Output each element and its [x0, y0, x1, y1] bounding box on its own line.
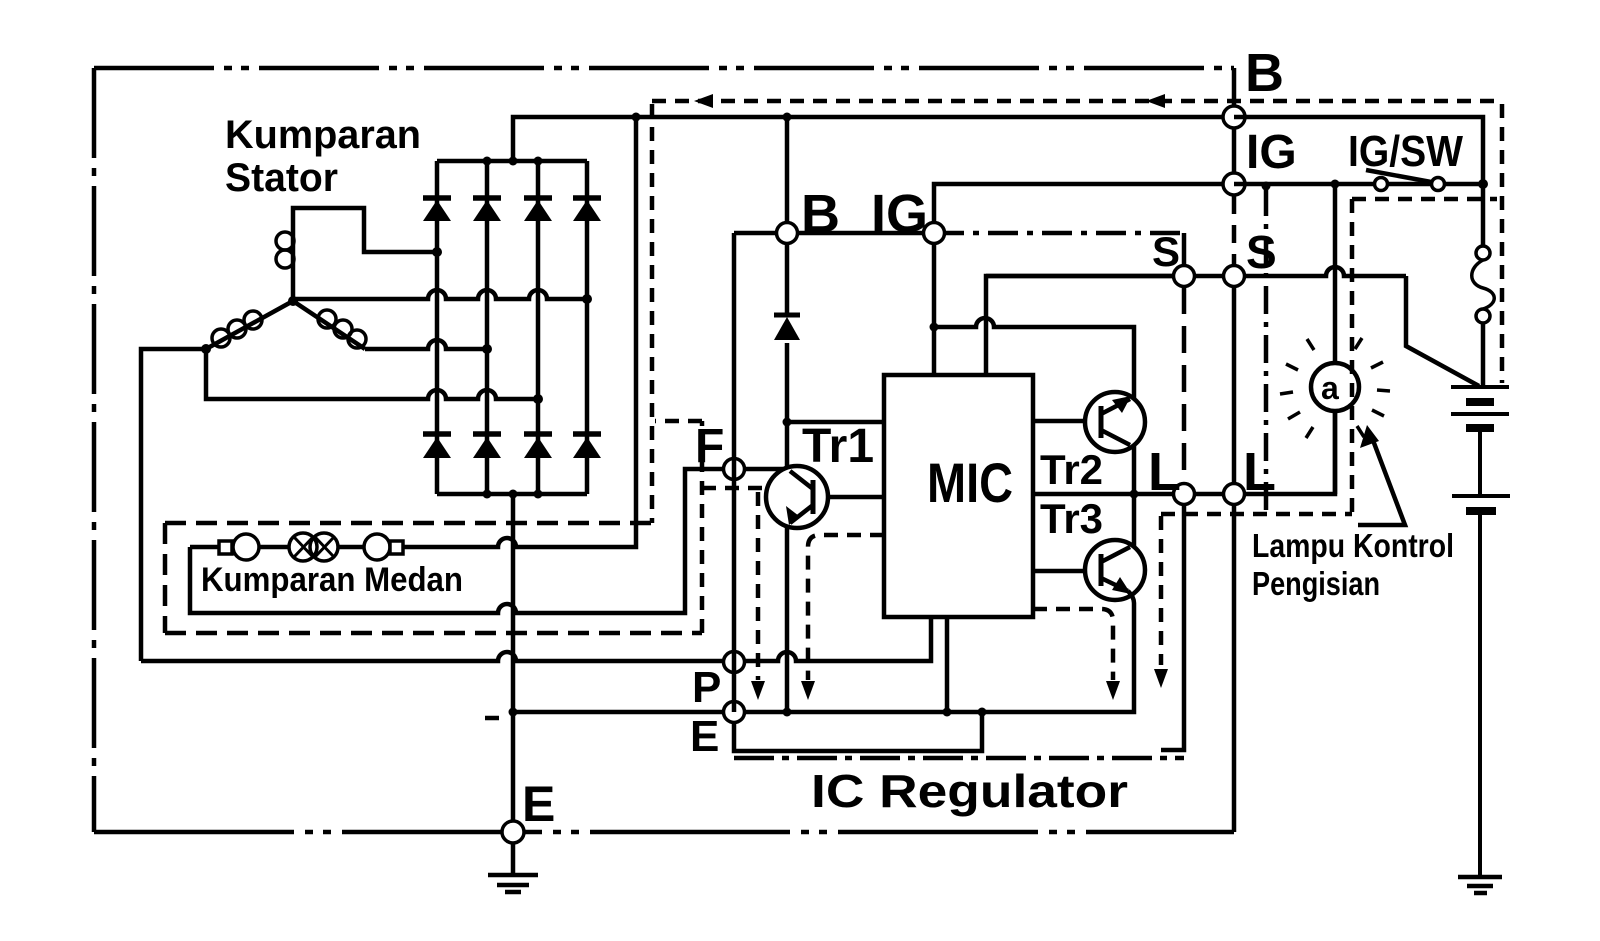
- node Tr1 collector junction: [783, 418, 792, 427]
- svg-text:Tr3: Tr3: [1040, 495, 1103, 542]
- ground symbol below E: [488, 875, 538, 892]
- wire right terminal column B-IG: [1232, 107, 1237, 184]
- node B wire tap: [783, 113, 792, 122]
- ground symbol battery: [1458, 877, 1502, 893]
- wire Tr2 base to MIC: [1033, 419, 1086, 424]
- IC regulator bottom border (dash-dot): [734, 756, 1184, 761]
- wire field segment: [338, 545, 364, 550]
- alternator case border top (also B wire): [94, 66, 1234, 71]
- svg-text:P: P: [692, 663, 721, 712]
- wire field segment: [259, 545, 289, 550]
- wire S sense into MIC: [986, 276, 1172, 375]
- svg-text:L: L: [1243, 442, 1276, 502]
- stator coil 2 loops: [244, 311, 262, 329]
- svg-text:B: B: [1245, 43, 1284, 103]
- wire Tr3 emitter bend to E line: [1128, 591, 1134, 603]
- field connector square left: [219, 541, 232, 554]
- svg-text:IG: IG: [1246, 126, 1297, 179]
- switch contact left: [1375, 178, 1388, 191]
- field connector square right: [390, 541, 403, 554]
- svg-text:Stator: Stator: [225, 156, 338, 200]
- battery cells: [1451, 387, 1510, 877]
- svg-text:L: L: [1148, 442, 1181, 502]
- wire MIC ground pin: [945, 617, 950, 712]
- switch IG/SW blade: [1366, 170, 1442, 184]
- transistor Tr1: [766, 466, 828, 528]
- svg-text:IG: IG: [871, 184, 928, 244]
- dashed flow arrow at Tr1 left: [756, 492, 761, 680]
- node IG-Tr2 branch: [930, 323, 939, 332]
- rectifier column 3: [536, 161, 541, 494]
- wire Tr3 collector to L line: [1132, 494, 1137, 547]
- wire F to Tr1: [744, 467, 783, 472]
- wire S-left to L-left (dashed): [1182, 287, 1187, 483]
- node MIC ground junction: [943, 708, 952, 717]
- terminal B circle: [1223, 106, 1245, 128]
- wire B terminal to ignition switch feed: [1234, 117, 1483, 184]
- rectifier column 1: [435, 161, 440, 494]
- svg-text:Pengisian: Pengisian: [1252, 565, 1380, 602]
- wire Tr2 collector line: [934, 318, 1134, 399]
- stator neutral wire to rectifier column 4: [293, 290, 587, 299]
- wire lamp to L line: [1333, 411, 1338, 494]
- dashed flow arrow on lamp return: [1159, 516, 1164, 665]
- diode D4: [573, 198, 601, 221]
- wire B corner from top border to terminal B: [1232, 68, 1237, 117]
- arrow left on dashed feed (inner): [694, 94, 713, 108]
- minus polarity tick: [485, 716, 499, 721]
- node charge lamp tap: [1331, 180, 1340, 189]
- node phase2-col3: [533, 394, 543, 404]
- wire B/IG node rail: [734, 231, 934, 236]
- alternator case border bottom: [94, 830, 1234, 835]
- terminal P circle: [724, 652, 745, 673]
- transistor Tr2: [1085, 392, 1145, 452]
- wire IG terminal to switch: [1234, 182, 1483, 187]
- stator coil 1 loops: [276, 232, 294, 250]
- wire right terminal column IG-S (dashed): [1232, 196, 1237, 265]
- wire phase 2 tap to P line: [141, 349, 206, 661]
- svg-text:E: E: [690, 712, 719, 761]
- wire B node drop from B wire: [785, 117, 790, 223]
- dashed field box top: [165, 521, 652, 526]
- wire Tr2 emitter to L line: [1132, 445, 1137, 494]
- wire lamp drop: [1333, 184, 1338, 363]
- transistor Tr3: [1085, 540, 1145, 600]
- wire field coil to B supply: [403, 117, 636, 547]
- wire S-right to L-right: [1232, 287, 1237, 483]
- dashed regulator B drop: [650, 104, 655, 523]
- dashed F to Tr1 link: [702, 486, 766, 491]
- wire zener to Tr1 collector: [785, 343, 790, 467]
- wire P line (phase tap to MIC): [141, 617, 931, 661]
- node stem-E junction: [509, 708, 518, 717]
- dashed lamp box top: [1352, 197, 1497, 202]
- node lamp current tap: [1262, 182, 1271, 191]
- node bottom bus stem: [509, 490, 518, 499]
- node Tr1 emitter-E junction: [783, 708, 792, 717]
- terminal E (alternator) circle: [502, 821, 524, 843]
- node rectifier output stem top: [509, 157, 518, 166]
- dashed lamp box bottom: [1161, 512, 1352, 517]
- wire right terminal column L down to case bottom: [1232, 505, 1237, 832]
- field coil loops (kumparan medan): [289, 533, 317, 561]
- rectifier bottom bus: [437, 492, 587, 497]
- wire S sense to battery: [1406, 276, 1479, 386]
- wire L line: [1033, 411, 1335, 494]
- wire Tr3 base to MIC: [1033, 569, 1086, 574]
- wire phase 2 to rectifier column 3: [206, 349, 538, 399]
- rectifier top bus: [437, 159, 587, 164]
- wire Tr1 emitter to E line: [785, 528, 790, 712]
- wire L-left lower stub: [1161, 505, 1184, 750]
- node stator Y center: [288, 296, 298, 306]
- stator coil 3 loops: [318, 310, 336, 328]
- dashed field box left: [163, 523, 168, 633]
- fusible link: [1472, 246, 1495, 323]
- dashed feed line battery to regulator (top): [652, 99, 1497, 104]
- field connector circle left: [233, 534, 259, 560]
- svg-text:S: S: [1152, 228, 1180, 275]
- rectifier column 4: [585, 161, 590, 494]
- arrow left on dashed feed (outer): [1146, 94, 1165, 108]
- wire ground stem (rectifier negative to E): [511, 494, 516, 875]
- dashed lamp box right drop: [1350, 199, 1355, 512]
- node phase1-col1: [432, 247, 442, 257]
- wire IG node to MIC: [932, 243, 937, 375]
- wire B node to zener: [785, 243, 790, 313]
- terminal S left circle: [1174, 266, 1195, 287]
- node top bus col2: [483, 157, 492, 166]
- wire phase 3 to rectifier column 2: [365, 340, 487, 349]
- node bottom bus col3: [534, 490, 543, 499]
- dashed field return riser: [655, 421, 702, 633]
- svg-text:Tr1: Tr1: [802, 420, 874, 473]
- MIC block U1: [884, 375, 1033, 617]
- node bottom bus col2: [483, 490, 492, 499]
- wire IG node to S corner (dash-dot): [934, 231, 1184, 236]
- wire switch to fuse: [1481, 184, 1486, 246]
- wire Tr1 base to MIC: [828, 495, 884, 500]
- switch contact right: [1432, 178, 1445, 191]
- wire E terminal loop: [734, 712, 982, 751]
- wire E line: [513, 603, 1134, 712]
- stator phase coil 3 (right diagonal): [293, 301, 365, 349]
- svg-text:IG/SW: IG/SW: [1348, 127, 1463, 176]
- svg-text:Tr2: Tr2: [1040, 446, 1103, 493]
- svg-text:Kumparan: Kumparan: [225, 113, 421, 157]
- stator phase coil 1 (vertical) wire to rectifier column 1: [293, 208, 437, 301]
- zener diode: [774, 315, 800, 340]
- terminal F circle: [724, 459, 745, 480]
- charge lamp bulb: [1311, 363, 1359, 411]
- field connector circle right: [364, 534, 390, 560]
- node switch output junction: [1478, 179, 1488, 189]
- terminal IG circle: [1223, 173, 1245, 195]
- dashed battery plus riser: [1500, 104, 1505, 383]
- dashed flow arrow at Tr1 emitter: [808, 535, 884, 680]
- svg-text:S: S: [1246, 226, 1277, 278]
- alternator case border left: [92, 68, 97, 832]
- node stator phase 2 end: [201, 344, 211, 354]
- diode D6: [473, 434, 501, 458]
- terminal S right circle: [1224, 266, 1245, 287]
- diode D5: [423, 434, 451, 458]
- diode D1: [423, 198, 451, 221]
- svg-text:MIC: MIC: [927, 451, 1013, 514]
- dashed flow arrow below MIC/Tr3: [1033, 609, 1113, 680]
- terminal L right circle: [1224, 484, 1245, 505]
- stator phase coil 2 (left diagonal): [206, 301, 293, 349]
- wire fuse to battery: [1481, 323, 1486, 385]
- wire IG node to IG terminal: [934, 184, 1234, 223]
- dash-dot lamp current tap: [1264, 188, 1269, 510]
- node IG (regulator) circle: [924, 223, 945, 244]
- node B (regulator) circle: [777, 223, 798, 244]
- svg-text:E: E: [522, 776, 555, 832]
- lamp rays: [1280, 338, 1390, 438]
- svg-text:B: B: [801, 184, 840, 244]
- svg-text:Kumparan Medan: Kumparan Medan: [201, 561, 463, 599]
- field coil circuit top wire with connectors: [190, 545, 219, 550]
- diode D3: [524, 198, 552, 221]
- diode D7: [524, 434, 552, 458]
- wire F-P-E terminal column: [732, 233, 737, 712]
- svg-text:F: F: [695, 420, 724, 473]
- terminal E (regulator) circle: [724, 702, 745, 723]
- rectifier column 2: [485, 161, 490, 494]
- svg-text:a: a: [1321, 370, 1339, 406]
- terminal L left circle: [1174, 484, 1195, 505]
- node E loop junction: [978, 708, 987, 717]
- diode D8: [573, 434, 601, 458]
- pointer arrow to lamp: [1358, 425, 1405, 525]
- node L line junction: [1130, 490, 1139, 499]
- node phase3-col2: [482, 344, 492, 354]
- svg-text:Lampu Kontrol: Lampu Kontrol: [1252, 527, 1454, 564]
- wire collector junction to MIC: [787, 420, 884, 425]
- node top bus col3: [534, 157, 543, 166]
- diode D2: [473, 198, 501, 221]
- dashed field box bottom: [165, 631, 702, 636]
- node field supply tap on B wire: [632, 113, 641, 122]
- wire rectifier output to terminal B: [513, 117, 1234, 161]
- svg-text:IC Regulator: IC Regulator: [811, 765, 1128, 817]
- node neutral-col4: [582, 294, 592, 304]
- wire S line: [986, 267, 1406, 276]
- field coil return wire to F: [190, 469, 723, 613]
